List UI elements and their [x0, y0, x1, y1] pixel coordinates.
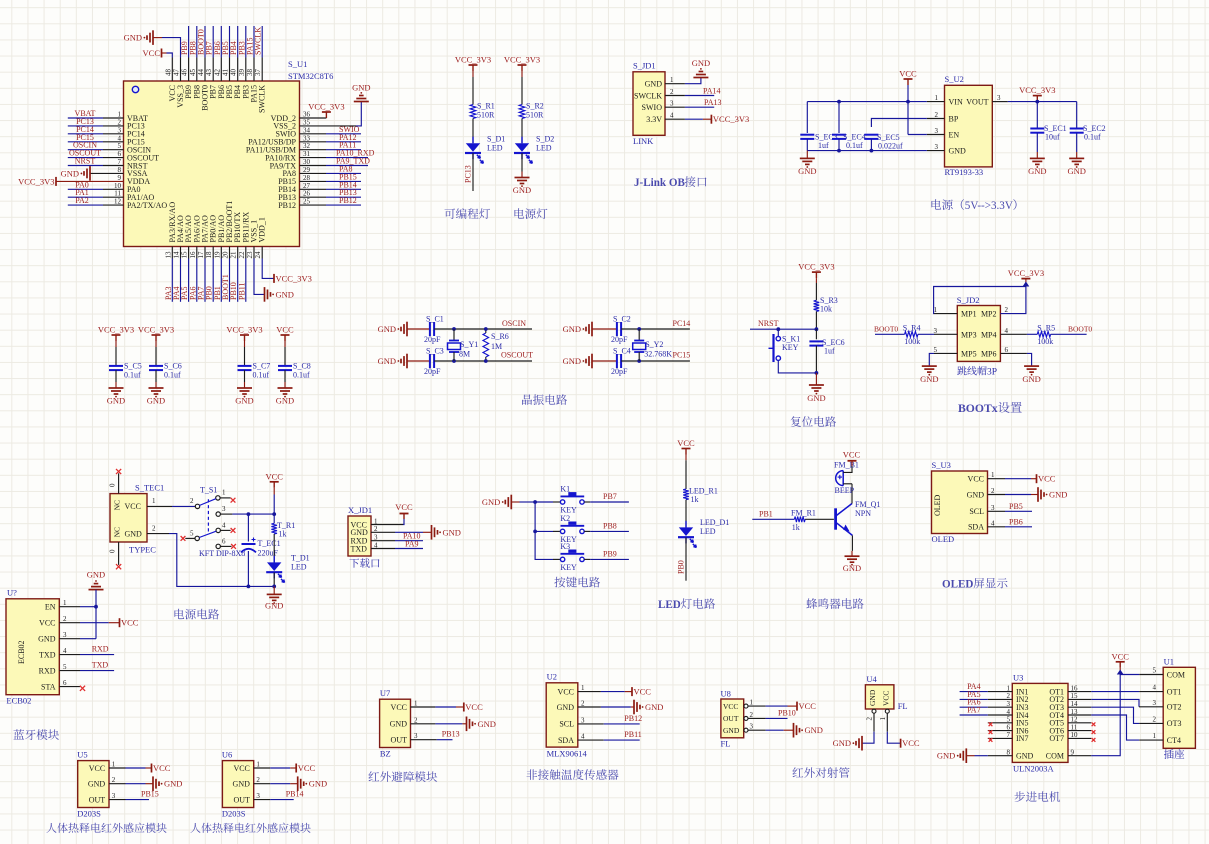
svg-text:S_C3: S_C3 — [426, 347, 444, 356]
svg-text:GND: GND — [868, 689, 877, 706]
svg-text:S_TEC1: S_TEC1 — [135, 483, 164, 493]
push button K3 KEY — [553, 542, 590, 572]
svg-text:KFT DIP-8X8: KFT DIP-8X8 — [199, 549, 245, 558]
svg-text:K3: K3 — [560, 542, 570, 551]
svg-text:4: 4 — [581, 733, 585, 741]
svg-text:33: 33 — [303, 134, 311, 142]
svg-text:2: 2 — [152, 525, 156, 533]
transistor FM_Q1 NPN — [836, 484, 881, 551]
svg-text:GND: GND — [1016, 752, 1034, 761]
svg-text:1k: 1k — [691, 495, 699, 504]
power VCC LED circuit — [677, 438, 695, 489]
svg-text:PB15: PB15 — [141, 790, 159, 799]
svg-text:3: 3 — [670, 100, 674, 108]
MCU pin names and numbers — [114, 69, 311, 259]
ground at X_JD1 pin 2 — [371, 525, 461, 540]
module U5 D203S body — [77, 750, 109, 819]
svg-text:20pF: 20pF — [611, 367, 628, 376]
svg-text:18: 18 — [205, 251, 213, 259]
svg-text:1: 1 — [750, 699, 754, 707]
svg-text:PB7: PB7 — [603, 492, 617, 501]
wire + net label PA10 at X_JD1 pin 3 — [371, 532, 423, 541]
ground TYPEC — [265, 585, 283, 611]
svg-text:29: 29 — [303, 166, 311, 174]
svg-text:17: 17 — [197, 251, 205, 259]
svg-text:GND: GND — [1067, 166, 1085, 176]
wire + net label PB4 (MCU pin 40) — [229, 26, 238, 58]
wire + net label PA7 (MCU pin 17) — [196, 259, 205, 302]
svg-text:RXD: RXD — [92, 645, 109, 654]
svg-text:3: 3 — [118, 126, 122, 134]
ground at U7 pin 2 — [411, 717, 496, 732]
power VCC above S_U2 — [899, 69, 917, 135]
resistor S_R3 10k — [814, 296, 838, 329]
wire + net label PC14 (MCU pin 3) — [68, 125, 124, 134]
capacitor S_EC6 1uf — [809, 329, 844, 373]
U4 bottom pins — [866, 709, 890, 720]
svg-text:4: 4 — [670, 112, 674, 120]
svg-text:3: 3 — [581, 716, 585, 724]
wire TYPEC ground rail — [147, 534, 274, 589]
svg-text:ECB02: ECB02 — [17, 640, 26, 664]
S_TEC1 pin numbers — [152, 497, 156, 533]
label socket — [1164, 749, 1184, 759]
svg-text:VCC: VCC — [125, 502, 141, 511]
svg-text:0.1uf: 0.1uf — [1084, 133, 1101, 142]
svg-text:44: 44 — [197, 69, 205, 77]
svg-text:GND: GND — [235, 396, 253, 406]
svg-text:25: 25 — [303, 198, 311, 206]
svg-text:VCC: VCC — [843, 450, 861, 460]
wire + net label PA6 at U3 pin 3 — [960, 698, 1013, 708]
svg-text:VCC_3V3: VCC_3V3 — [1008, 268, 1044, 278]
svg-text:2: 2 — [935, 111, 939, 119]
svg-text:VCC: VCC — [233, 764, 249, 773]
wire + net label OSCOUT — [434, 351, 533, 363]
svg-text:S_Y2: S_Y2 — [645, 340, 663, 349]
svg-text:13: 13 — [164, 251, 172, 259]
svg-text:VCC: VCC — [465, 702, 483, 712]
capacitor S_C6 0.1uf with VCC_3V3 and ground — [138, 325, 182, 406]
wire + net label PB9 (MCU pin 46) — [180, 26, 189, 58]
wire + net label TXD at ECB02 pin 5 — [59, 661, 114, 671]
svg-text:K2: K2 — [560, 514, 570, 523]
svg-text:K1: K1 — [560, 485, 570, 494]
svg-text:S_R6: S_R6 — [491, 332, 509, 341]
svg-text:LED: LED — [487, 144, 503, 153]
svg-text:T_D1: T_D1 — [291, 554, 310, 563]
caption LED circuit — [658, 598, 715, 611]
svg-text:35: 35 — [303, 118, 311, 126]
svg-text:VCC_3V3: VCC_3V3 — [455, 55, 491, 65]
push button K2 KEY — [553, 514, 590, 544]
svg-text:SWCLK: SWCLK — [634, 91, 662, 100]
svg-text:21: 21 — [230, 251, 238, 259]
wire VIN rail — [807, 100, 944, 104]
wire + net label PA5 at U3 pin 2 — [960, 690, 1013, 700]
svg-text:BOOTx: BOOTx — [958, 402, 998, 415]
wire BP to EC5 — [871, 119, 944, 128]
wire + net label PA13 at S_JD1 pin 3 — [665, 98, 722, 107]
svg-text:COM: COM — [1046, 752, 1064, 761]
capacitor T_EC1 220uF electrolytic — [241, 514, 281, 586]
svg-text:GND: GND — [124, 33, 142, 43]
svg-text:GND: GND — [645, 80, 663, 89]
svg-text:32: 32 — [303, 142, 311, 150]
svg-text:S_Y1: S_Y1 — [460, 340, 478, 349]
caption PIR module 1 — [46, 823, 166, 833]
ground at S_C4 — [563, 354, 617, 369]
ground at S_JD2 pin 5 — [920, 353, 957, 384]
svg-text:0.1uf: 0.1uf — [124, 371, 141, 380]
U2 pin names and numbers — [557, 684, 585, 745]
power VCC at U8 pin 1 — [748, 701, 816, 711]
svg-text:1uf: 1uf — [824, 347, 835, 356]
U5 pin names and numbers — [88, 761, 116, 805]
wire + net label BOOT1 (MCU pin 20) — [221, 259, 230, 302]
ground below S_D2 — [513, 153, 531, 195]
svg-text:GND: GND — [378, 324, 396, 334]
svg-text:VCC: VCC — [799, 701, 817, 711]
svg-text:0.1uf: 0.1uf — [846, 141, 863, 150]
svg-text:U1: U1 — [1164, 657, 1174, 667]
svg-text:LED: LED — [700, 527, 716, 536]
svg-text:MP2: MP2 — [981, 310, 997, 319]
resistor S_R5 100k — [1000, 324, 1055, 347]
U1 pin names and numbers — [1153, 667, 1186, 745]
svg-text:GND: GND — [107, 396, 125, 406]
svg-text:100k: 100k — [904, 337, 920, 346]
ground at MCU pin 47 VSS_3 — [124, 30, 181, 57]
svg-text:VCC_3V3: VCC_3V3 — [98, 325, 134, 335]
svg-text:NRST: NRST — [758, 319, 779, 328]
svg-text:2: 2 — [190, 497, 194, 505]
svg-text:3: 3 — [997, 94, 1001, 102]
wire + net label PA0 (MCU pin 10) — [68, 180, 124, 189]
svg-text:10k: 10k — [820, 305, 832, 314]
svg-text:S_R2: S_R2 — [526, 102, 544, 111]
svg-text:BOOT0: BOOT0 — [1068, 324, 1092, 333]
wire + net label PC13 below S_D1 — [464, 153, 474, 191]
svg-text:PC13: PC13 — [464, 165, 473, 183]
svg-text:FM_R1: FM_R1 — [791, 509, 816, 518]
wire COM U1 pin 5 — [1120, 674, 1163, 676]
svg-text:3: 3 — [935, 127, 939, 135]
wire + net label PA9 at X_JD1 pin 4 — [371, 540, 423, 549]
wire + net label PB0 (MCU pin 18) — [205, 259, 214, 302]
svg-text:14: 14 — [172, 251, 180, 259]
svg-text:S_U1: S_U1 — [288, 59, 307, 69]
svg-text:GND: GND — [87, 570, 105, 580]
svg-text:220uF: 220uF — [258, 549, 279, 558]
svg-text:OUT: OUT — [89, 795, 106, 804]
power VCC at U2 pin 1 — [578, 687, 652, 697]
no-connect at ECB02 pin 6 STA — [59, 686, 85, 691]
svg-text:5: 5 — [63, 663, 67, 671]
caption reset circuit — [791, 416, 836, 427]
svg-text:STA: STA — [41, 682, 56, 691]
wire + net label PB13 (MCU pin 26) — [300, 188, 362, 197]
svg-text:KEY: KEY — [560, 563, 577, 572]
wire + net label PB6 at S_U3 pin 4 — [988, 517, 1033, 527]
connector S_JD1 LINK body — [633, 61, 665, 147]
svg-text:GND: GND — [88, 780, 106, 789]
svg-text:VCC: VCC — [265, 471, 283, 481]
svg-text:4: 4 — [1153, 684, 1157, 692]
svg-text:5: 5 — [1153, 667, 1157, 675]
svg-text:PB12: PB12 — [624, 714, 642, 723]
wire + net label PA8 (MCU pin 29) — [300, 164, 362, 173]
wire + net label VBAT (MCU pin 1) — [68, 109, 124, 118]
svg-text:NC: NC — [113, 527, 122, 537]
svg-text:VDD_1: VDD_1 — [258, 217, 267, 242]
wire + net label RXD at ECB02 pin 4 — [59, 645, 114, 655]
ground at MCU pin 8 VSSA — [61, 166, 124, 181]
wire + net label PB12 (MCU pin 25) — [300, 196, 362, 205]
svg-text:1M: 1M — [491, 342, 502, 351]
wire + net label PC13 (MCU pin 2) — [68, 117, 124, 126]
svg-text:16: 16 — [189, 251, 197, 259]
svg-text:PB1: PB1 — [759, 510, 773, 519]
LED S_D1 — [465, 119, 505, 164]
svg-text:2: 2 — [414, 716, 418, 724]
caption power 5V to 3.3V — [931, 199, 1016, 212]
capacitor S_EC4 0.1uf — [832, 102, 866, 151]
wire + net label PB9 — [590, 549, 629, 559]
svg-text:BOOT0: BOOT0 — [874, 324, 898, 333]
power VCC at U7 pin 1 — [411, 702, 484, 712]
svg-text:GND: GND — [949, 146, 967, 155]
LED T_D1 — [266, 554, 309, 587]
resistor S_R6 1M — [483, 327, 509, 363]
wire + net label PB5 (MCU pin 41) — [221, 26, 230, 58]
wire + net label PB7 — [590, 492, 629, 502]
resistor S_R1 510R — [455, 55, 495, 120]
wire + net label PC15 (MCU pin 4) — [68, 133, 124, 142]
svg-text:MP4: MP4 — [981, 330, 997, 339]
svg-text:PB12: PB12 — [278, 201, 296, 210]
svg-text:GND: GND — [920, 374, 938, 384]
svg-text:FM_B1: FM_B1 — [834, 461, 859, 470]
driver U3 ULN2003A body — [1012, 673, 1068, 774]
S_U2 pin names and numbers — [935, 94, 1002, 155]
svg-text:SDA: SDA — [968, 523, 984, 532]
ground at MCU pin 23 VSS_1 — [254, 259, 294, 302]
svg-text:3: 3 — [991, 504, 995, 512]
svg-text:T_S1: T_S1 — [200, 486, 217, 495]
ground at U6 pin 2 — [254, 776, 327, 791]
svg-text:PA13: PA13 — [704, 98, 722, 107]
svg-text:OLED: OLED — [942, 579, 973, 591]
svg-text:23: 23 — [246, 251, 254, 259]
svg-text:19: 19 — [213, 251, 221, 259]
svg-text:27: 27 — [303, 182, 311, 190]
svg-text:GND: GND — [482, 497, 500, 507]
svg-text:VCC_3V3: VCC_3V3 — [1019, 85, 1055, 95]
svg-text:26: 26 — [303, 190, 311, 198]
svg-text:31: 31 — [303, 150, 311, 158]
svg-text:OSCIN: OSCIN — [502, 319, 526, 328]
svg-text:5V-->3.3V: 5V-->3.3V — [965, 200, 1013, 212]
svg-text:1: 1 — [581, 684, 585, 692]
svg-text:GND: GND — [443, 527, 461, 537]
svg-text:42: 42 — [213, 69, 221, 77]
svg-text:GND: GND — [125, 529, 143, 538]
svg-text:PB6: PB6 — [1009, 517, 1023, 526]
svg-text:2: 2 — [670, 88, 674, 96]
svg-text:0.1uf: 0.1uf — [253, 371, 270, 380]
svg-text:2: 2 — [1005, 306, 1009, 314]
caption crystal circuit — [522, 394, 567, 405]
svg-text:S_C2: S_C2 — [613, 315, 631, 324]
wire + net label PB3 (MCU pin 39) — [237, 26, 246, 58]
svg-text:1: 1 — [256, 761, 260, 769]
svg-text:48: 48 — [164, 69, 172, 77]
svg-text:3.3V: 3.3V — [646, 115, 662, 124]
capacitor S_C2 20pF — [611, 315, 631, 345]
caption power LED — [514, 208, 547, 219]
wire + net label PB0 — [677, 537, 687, 580]
svg-text:GND: GND — [309, 779, 327, 789]
svg-text:1: 1 — [935, 94, 939, 102]
buzzer FM_B1 BEEP — [834, 450, 861, 496]
wire + net label PA15 (MCU pin 38) — [246, 26, 255, 58]
svg-text:40: 40 — [230, 69, 238, 77]
svg-text:GND: GND — [1049, 490, 1067, 500]
svg-text:1: 1 — [414, 700, 418, 708]
svg-text:LED: LED — [658, 599, 681, 611]
wire + net label PB8 (MCU pin 45) — [188, 26, 197, 58]
wire + net label PA9_TXD (MCU pin 30) — [300, 157, 371, 166]
U3 pin names and numbers — [1007, 684, 1079, 760]
caption power circuit — [174, 609, 219, 620]
ECB02 pin names and numbers — [38, 599, 67, 691]
ground at U5 pin 2 — [109, 776, 182, 791]
svg-text:47: 47 — [172, 69, 180, 77]
caption buzzer circuit — [806, 598, 863, 609]
wire + net label PC15 — [621, 351, 690, 363]
svg-text:S_C6: S_C6 — [164, 362, 182, 371]
svg-text:PB11: PB11 — [237, 283, 246, 301]
svg-text:1: 1 — [879, 717, 887, 721]
ground at S_C2 — [563, 322, 617, 337]
wire + net label NRST — [750, 319, 818, 331]
ground at U8 pin 3 — [748, 723, 823, 738]
ground at U2 pin 2 — [578, 700, 664, 715]
svg-text:SWCLK: SWCLK — [254, 27, 263, 55]
ground at U3 pin 8 — [937, 748, 1012, 763]
wire + net label PA14 at S_JD1 pin 2 — [665, 87, 721, 96]
svg-text:RT9193-33: RT9193-33 — [945, 167, 984, 177]
connector X_JD1 body — [348, 505, 372, 556]
svg-text:3: 3 — [63, 631, 67, 639]
svg-text:41: 41 — [221, 69, 229, 77]
svg-text:2: 2 — [112, 776, 116, 784]
svg-text:TYPEC: TYPEC — [129, 545, 156, 555]
svg-text:5: 5 — [934, 346, 938, 354]
svg-text:PC14: PC14 — [673, 319, 691, 328]
wire U3 COM pin 9 to VCC — [1068, 675, 1120, 756]
svg-text:20pF: 20pF — [424, 367, 441, 376]
power VCC at U6 pin 1 — [254, 763, 316, 773]
svg-text:7: 7 — [118, 158, 122, 166]
module U4 FL body — [865, 674, 907, 711]
svg-text:S_R4: S_R4 — [903, 324, 921, 333]
wire + net label PA4 at U3 pin 1 — [960, 682, 1013, 692]
svg-text:20: 20 — [221, 251, 229, 259]
caption non-contact temperature sensor — [527, 769, 619, 780]
wire + net label PB15 at U5 pin 3 — [109, 790, 159, 800]
svg-text:ECB02: ECB02 — [6, 696, 31, 706]
svg-text:VCC: VCC — [153, 763, 171, 773]
svg-text:FL: FL — [898, 701, 908, 711]
svg-text:IN7: IN7 — [1016, 734, 1028, 743]
wire + net label OSCIN — [434, 319, 532, 331]
MCU top pin stubs — [172, 58, 262, 82]
no-connect at U3 pin 6 IN6 — [988, 730, 1013, 734]
svg-text:2: 2 — [63, 615, 67, 623]
svg-text:VCC_3V3: VCC_3V3 — [504, 55, 540, 65]
svg-text:ULN2003A: ULN2003A — [1013, 764, 1054, 774]
wire switch pin3 to VCC node — [232, 512, 276, 516]
svg-text:8: 8 — [118, 166, 122, 174]
svg-text:4: 4 — [1005, 327, 1009, 335]
svg-text:VCC: VCC — [968, 475, 984, 484]
IC S_U1 STM32C8T6 MCU body — [124, 59, 334, 247]
svg-text:5: 5 — [190, 530, 194, 538]
svg-text:1: 1 — [991, 471, 995, 479]
svg-text:VCC: VCC — [558, 687, 574, 696]
svg-text:2: 2 — [1153, 715, 1157, 723]
wire ECB02 EN/GND to ground — [59, 590, 98, 639]
svg-text:PA7: PA7 — [967, 706, 981, 715]
svg-text:S_D2: S_D2 — [536, 135, 554, 144]
svg-text:PB14: PB14 — [286, 790, 304, 799]
svg-text:8M: 8M — [459, 350, 470, 359]
svg-text:VCC_3V3: VCC_3V3 — [138, 325, 174, 335]
S_U3 pin names and numbers — [967, 471, 995, 531]
svg-text:TXD: TXD — [92, 661, 109, 670]
svg-text:RXD: RXD — [39, 666, 56, 675]
capacitor S_EC2 0.1uf — [1067, 102, 1105, 176]
svg-text:510R: 510R — [477, 111, 495, 120]
S_TEC1 pin 0 bottom no-connect — [109, 542, 122, 569]
svg-text:1: 1 — [1153, 732, 1157, 740]
caption IR obstacle module — [368, 771, 437, 782]
module S_U3 OLED body — [932, 460, 988, 544]
power VCC_3V3 at MCU pin 24 VDD_1 — [262, 259, 312, 284]
svg-text:36: 36 — [303, 111, 311, 119]
svg-text:24: 24 — [254, 251, 262, 259]
svg-text:0.022uf: 0.022uf — [878, 142, 903, 151]
capacitor S_C8 0.1uf with VCC and ground — [276, 325, 311, 406]
svg-text:J-Link OB: J-Link OB — [634, 177, 685, 189]
svg-text:EN: EN — [45, 603, 56, 612]
svg-text:3: 3 — [934, 327, 938, 335]
svg-text:1k: 1k — [792, 523, 800, 532]
svg-text:PB0: PB0 — [677, 560, 686, 574]
caption bluetooth module — [13, 729, 59, 740]
svg-text:SWCLK: SWCLK — [258, 85, 267, 113]
svg-text:28: 28 — [303, 174, 311, 182]
LED S_D2 — [514, 119, 554, 164]
jumper S_JD2 body — [957, 295, 1001, 361]
svg-text:TXD: TXD — [351, 544, 368, 553]
svg-text:BEEP: BEEP — [835, 486, 855, 495]
svg-text:MP3: MP3 — [961, 330, 977, 339]
svg-text:D203S: D203S — [77, 809, 101, 819]
svg-text:3: 3 — [112, 792, 116, 800]
